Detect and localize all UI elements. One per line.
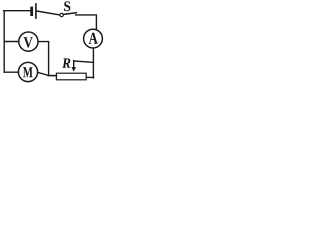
wire left trunk [3,11,5,72]
battery positive long thin bar [35,4,37,18]
wire rheostat left terminal [48,75,56,77]
switch S lever [64,13,77,15]
switch S pivot circle [60,13,63,16]
rheostat slider arrow shaft [73,61,75,68]
motor M1 circle [18,62,37,81]
label M (motor) [23,67,33,77]
voltmeter V1 circle [19,32,38,51]
wire ammeter bottom down to rheostat right junction [92,48,94,78]
rheostat slider arrowhead [71,67,76,72]
label V (voltmeter) [24,37,33,47]
label S (switch) [64,1,70,11]
wire trunk bottom corner to motor [4,71,18,73]
wire rheostat slider to ammeter wire [74,61,94,62]
label A (ammeter) [89,33,98,44]
wire bottom from motor to rheostat [38,72,57,75]
ammeter A1 circle [84,29,103,48]
wire battery to switch [37,11,60,15]
label R (rheostat) [62,58,70,67]
battery negative short thick bar [30,8,33,15]
rheostat R body box [56,73,86,80]
wire switch to top-right corner and down to ammeter [76,15,97,30]
wire voltmeter right branch down [38,42,48,76]
wire top-left (trunk to battery) [4,10,31,12]
wire trunk to voltmeter [4,41,19,43]
wire rheostat right terminal [86,76,93,78]
